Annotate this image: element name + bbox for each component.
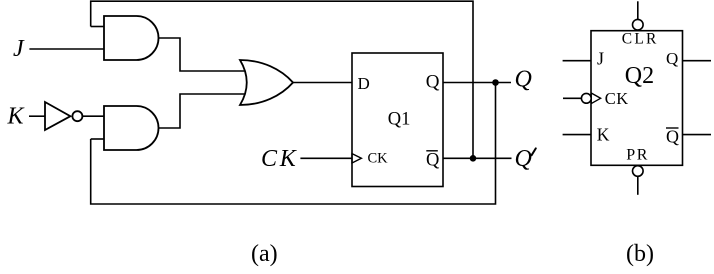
svg-text:Q: Q	[426, 72, 440, 93]
wire bottom feedback stub into AND2	[91, 138, 104, 140]
clock triangle pin of U2	[591, 93, 600, 104]
wire J input	[29, 48, 104, 50]
wire CK input of U2	[563, 97, 582, 99]
svg-text:(b): (b)	[626, 241, 654, 267]
svg-text:Q: Q	[515, 66, 532, 92]
wire Qbar output of U2	[683, 134, 712, 136]
wire Q output of U2	[683, 60, 712, 62]
junction node on Qbar line	[470, 155, 477, 162]
svg-text:Q: Q	[666, 49, 678, 68]
wire AND2 output to OR bottom input	[159, 94, 248, 128]
flip-flop U2 box (part b)	[591, 31, 683, 166]
svg-text:CK: CK	[261, 146, 299, 172]
CLR bubble of U2	[633, 19, 644, 30]
svg-text:J: J	[13, 36, 25, 62]
svg-text:Q: Q	[426, 151, 440, 171]
wire inverter output to AND2	[82, 115, 104, 117]
svg-text:CK: CK	[605, 89, 629, 108]
wire Q output	[443, 82, 511, 84]
svg-text:(a): (a)	[251, 241, 278, 267]
wire top feedback stub into AND1	[91, 26, 104, 28]
wire Qbar output	[443, 157, 512, 159]
svg-text:Q: Q	[666, 126, 679, 146]
wire OR output to D input	[293, 82, 352, 84]
wire PR stub	[637, 176, 639, 195]
wire AND1 output to OR top input	[159, 38, 248, 71]
svg-text:Q: Q	[515, 146, 532, 172]
wire bottom feedback from Q node to AND2	[91, 83, 496, 205]
svg-text:CK: CK	[368, 151, 389, 167]
prime of Q'	[532, 148, 536, 155]
svg-text:K: K	[597, 125, 610, 145]
and gate A1 (J AND Q')	[104, 16, 159, 60]
svg-text:K: K	[7, 104, 26, 130]
CK bubble of U2	[581, 93, 591, 103]
or gate O1	[240, 60, 293, 105]
overbar of Qbar U1	[426, 150, 438, 152]
wire K input	[29, 115, 45, 117]
svg-text:Q2: Q2	[625, 63, 654, 89]
svg-text:D: D	[358, 74, 370, 93]
svg-text:PR: PR	[626, 147, 649, 164]
svg-text:CLR: CLR	[622, 31, 659, 48]
clock triangle pin of U1	[352, 154, 361, 163]
wire K input of U2	[563, 134, 591, 136]
junction node on Q line	[492, 79, 499, 86]
svg-text:Q1: Q1	[388, 110, 411, 130]
wire CLR stub	[637, 1, 639, 19]
wire top feedback from Qbar node to AND1	[91, 1, 473, 158]
overbar of Qbar U2	[666, 127, 679, 129]
inverter (NOT gate) on K	[45, 102, 82, 130]
wire CK input	[300, 157, 352, 159]
svg-text:J: J	[597, 48, 604, 68]
and gate A2 (K' AND Q)	[104, 106, 159, 150]
PR bubble of U2	[633, 166, 644, 177]
wire J input of U2	[563, 60, 591, 62]
flip-flop U1 box	[352, 53, 443, 187]
